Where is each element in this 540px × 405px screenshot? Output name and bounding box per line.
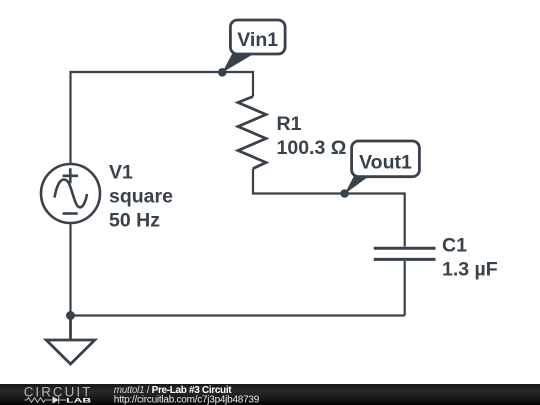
node Vin1 flag <box>218 20 285 77</box>
voltage source V1 <box>41 164 100 223</box>
svg-text:V1: V1 <box>109 162 133 184</box>
wire left vertical below V1 <box>69 223 71 316</box>
label V1 value text <box>109 162 173 232</box>
svg-text:1.3 µF: 1.3 µF <box>442 259 498 281</box>
svg-text:50 Hz: 50 Hz <box>109 210 160 232</box>
resistor R1 <box>238 97 266 169</box>
svg-text:R1: R1 <box>277 113 302 135</box>
svg-text:square: square <box>109 186 173 208</box>
node junction dot bottom-left <box>66 311 75 320</box>
wire top horizontal from V1 to resistor <box>71 72 254 164</box>
capacitor C1 <box>374 248 436 259</box>
svg-text:Vout1: Vout1 <box>359 152 412 174</box>
wire middle horizontal (resistor to capacitor branch) <box>253 169 405 247</box>
wire bottom horizontal <box>71 314 405 316</box>
footer bar <box>0 384 540 405</box>
svg-text:http://circuitlab.com/c7j3p4jb: http://circuitlab.com/c7j3p4jb48739 <box>114 395 260 405</box>
label C1 value text <box>442 235 498 281</box>
wire right vertical below capacitor <box>404 261 406 316</box>
svg-text:100.3 Ω: 100.3 Ω <box>277 137 347 159</box>
CircuitLab logo resistor squiggle and diode <box>25 396 67 403</box>
svg-text:LAB: LAB <box>66 397 91 404</box>
ground <box>46 316 95 365</box>
node Vout1 flag <box>340 141 419 198</box>
svg-text:C1: C1 <box>442 235 467 257</box>
svg-text:Vin1: Vin1 <box>237 29 278 51</box>
label R1 value text <box>277 113 347 159</box>
